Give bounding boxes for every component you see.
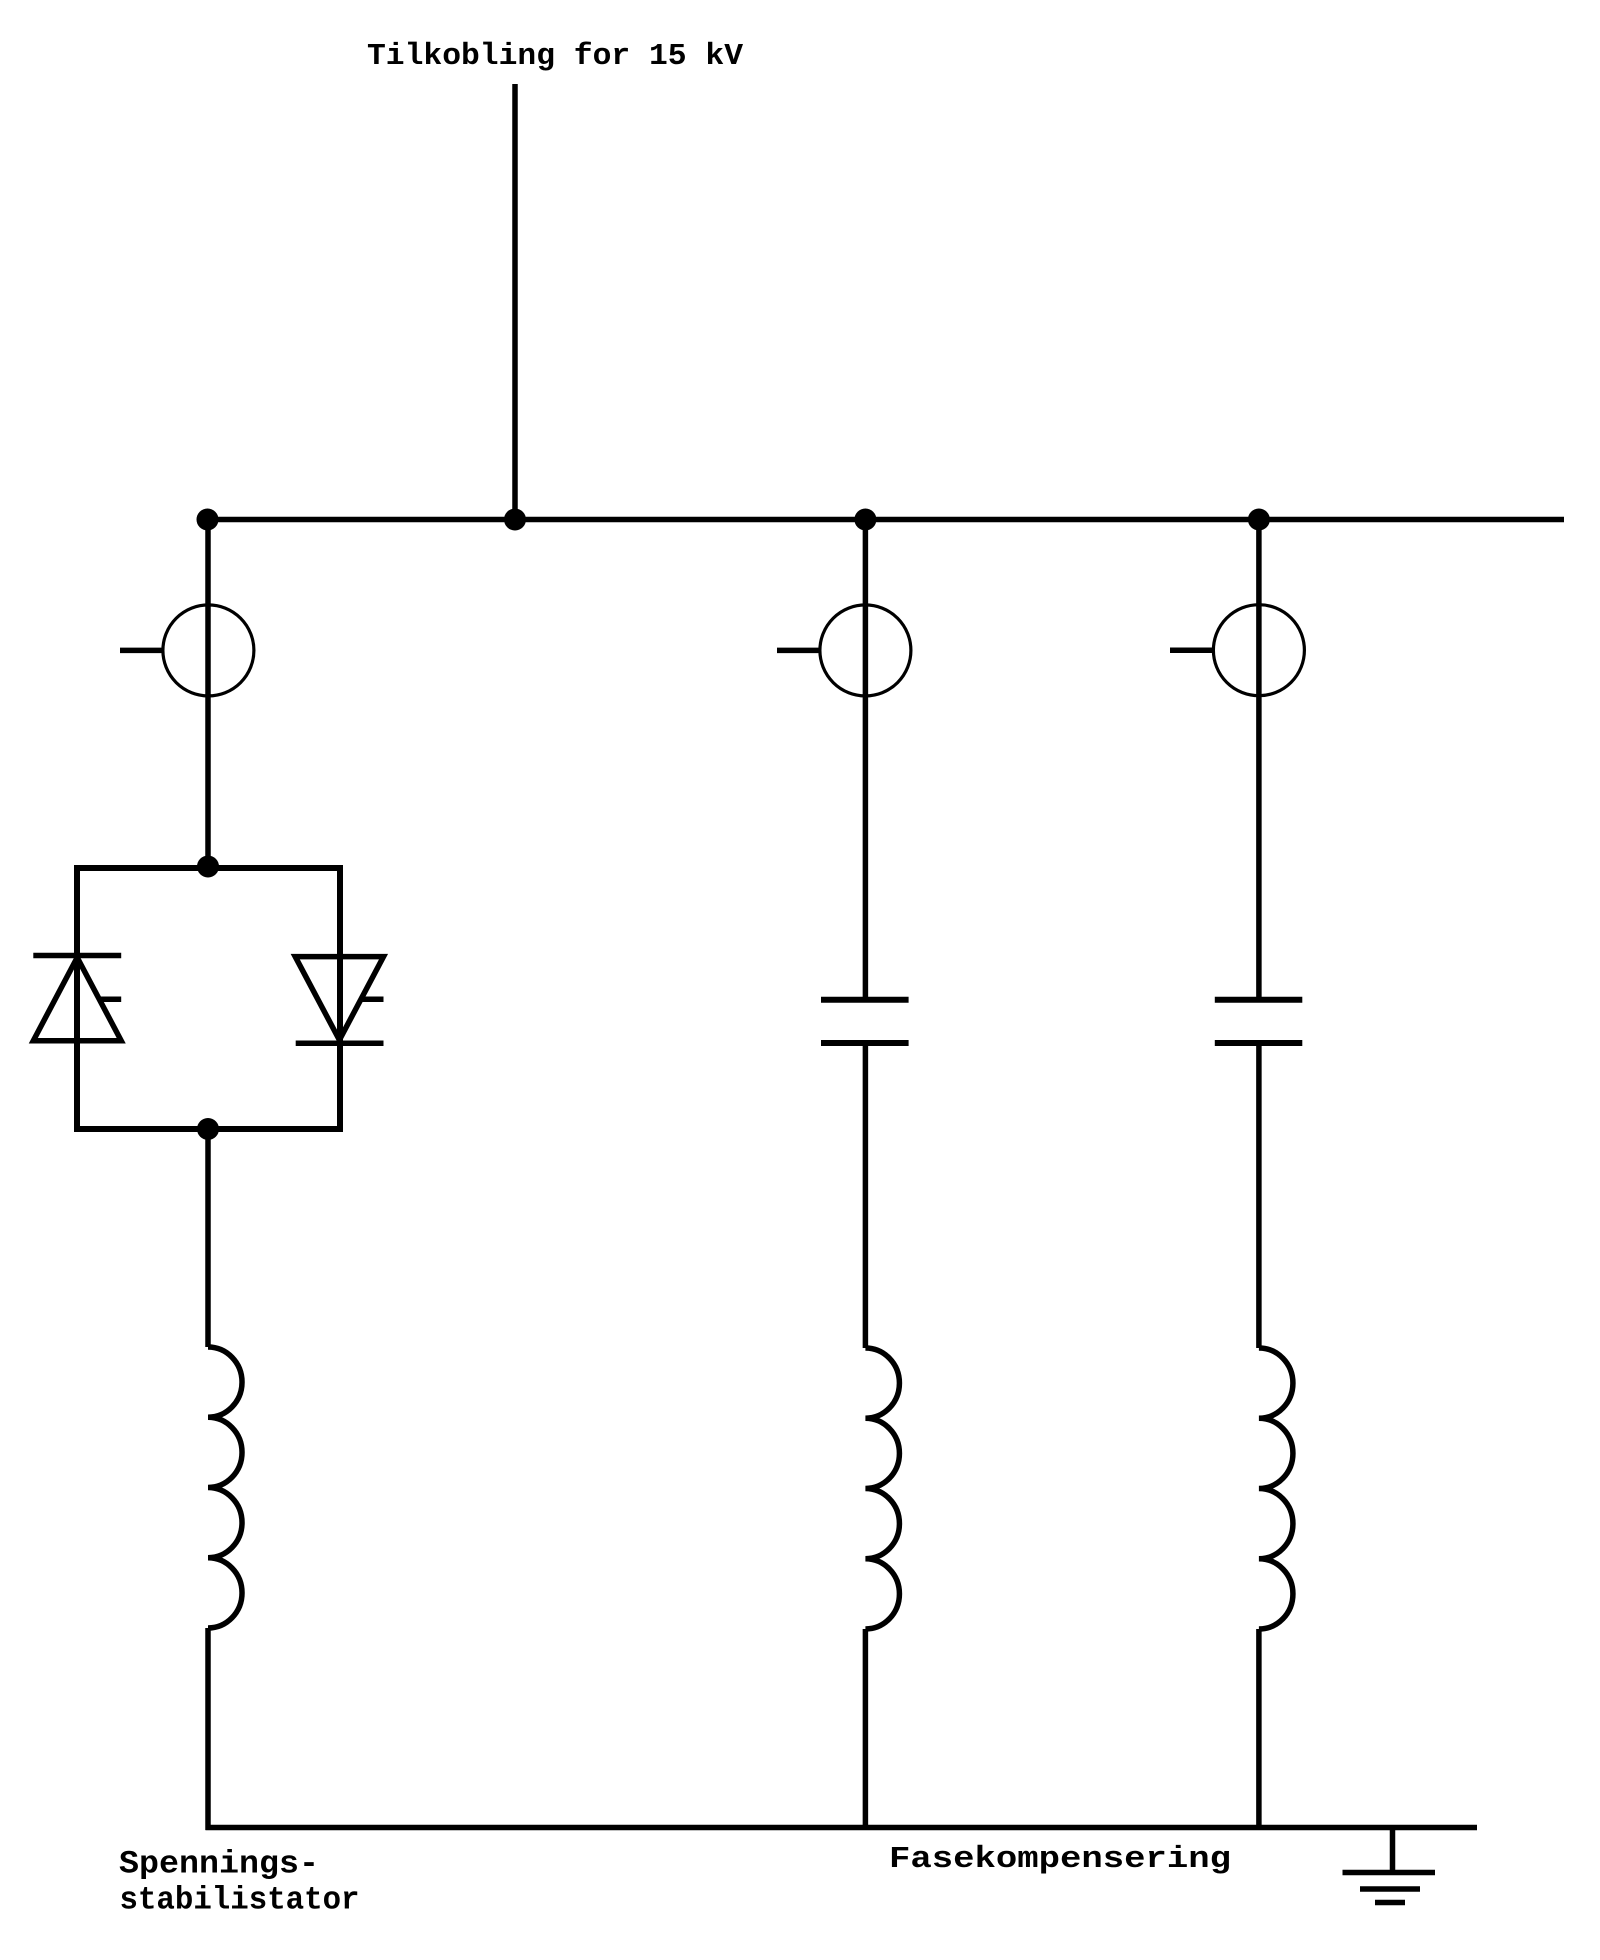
wire: reactor to bottom bus (right) [1256,1629,1262,1830]
actuator stub (left) [120,648,163,654]
node: middle branch junction [854,509,876,531]
wire: capacitor to reactor (right) [1256,1043,1262,1348]
wire: valve box to reactor [205,1129,211,1347]
svg-text:Fasekompensering: Fasekompensering [889,1842,1231,1877]
ground stem [1390,1828,1396,1873]
thyristor Q2 gate [361,997,384,1003]
wire: right branch from bus to capacitor [1256,520,1262,1001]
node: valve box bottom [197,1118,219,1140]
node: bus left junction [197,509,219,531]
svg-text:Spennings-: Spennings- [119,1845,319,1882]
capacitor C1 top plate [821,997,909,1003]
wire: bottom bus [206,1825,1478,1831]
actuator stub (middle) [777,648,820,654]
thyristor Q2 cathode bar [296,1040,384,1046]
reactor coil L3 [1259,1348,1293,1629]
node: valve box top [197,856,219,878]
thyristor Q1 cathode bar [33,953,121,959]
capacitor C2 top plate [1215,997,1303,1003]
wire: top bus [206,517,1565,523]
capacitor C2 bottom plate [1215,1040,1303,1046]
instrument circle (right) [1213,605,1304,696]
ground bar 3 [1375,1900,1405,1906]
instrument circle (left) [163,605,254,696]
capacitor C1 bottom plate [821,1040,909,1046]
wire: 15 kV feeder drop [512,84,518,520]
node: right branch junction [1248,509,1270,531]
wire: left branch from bus to valve box [205,520,211,869]
reactor coil L1 [208,1347,242,1628]
instrument circle (middle) [820,605,911,696]
thyristor Q1 triangle [33,958,121,1041]
svg-text:stabilistator: stabilistator [120,1882,360,1919]
ground bar 1 [1343,1870,1436,1876]
thyristor valve box loop [77,868,340,1129]
thyristor Q1 gate [99,996,121,1002]
wire: middle branch from bus to capacitor [863,520,869,1001]
thyristor Q2 triangle [295,957,383,1040]
actuator stub (right) [1170,647,1213,653]
wire: capacitor to reactor (middle) [863,1043,869,1348]
wire: reactor to bottom bus (left) [205,1628,211,1830]
reactor coil L2 [865,1348,899,1629]
svg-text:Tilkobling for 15 kV: Tilkobling for 15 kV [367,39,743,74]
ground bar 2 [1360,1886,1420,1892]
wire: reactor to bottom bus (middle) [863,1629,869,1830]
node: feeder junction [504,509,526,531]
